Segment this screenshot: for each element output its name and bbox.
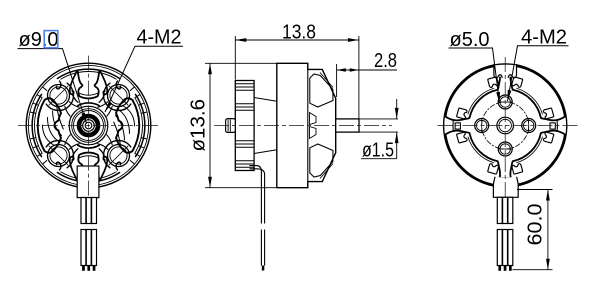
dimension Ø1.5 xyxy=(359,99,398,159)
bell chamfer inner line top xyxy=(320,73,333,88)
wire holder front xyxy=(77,166,99,198)
back view tab NW xyxy=(437,57,509,129)
back view tab SE xyxy=(501,122,573,194)
front view east rim xyxy=(135,94,145,156)
back view outer circle xyxy=(444,64,567,187)
back view tab NE xyxy=(501,57,573,129)
dimension 4-M2 left leader xyxy=(105,46,183,112)
mount hole BR xyxy=(108,145,130,167)
front view center line horizontal xyxy=(18,125,160,127)
island arc around hole TR xyxy=(104,83,131,110)
back wire tips xyxy=(498,266,511,271)
back hole N xyxy=(498,95,512,109)
mount hole TR xyxy=(108,85,130,107)
back view tab SW xyxy=(437,122,509,194)
bell top window xyxy=(310,74,333,107)
shoulder slant top xyxy=(254,98,277,102)
back hole S xyxy=(498,142,512,156)
spokes BL xyxy=(65,135,79,149)
blue highlight box on 0 xyxy=(44,31,58,48)
dimension Ø9.0 leader xyxy=(18,49,87,124)
svg-text:4-M2: 4-M2 xyxy=(137,27,182,49)
back view center line horizontal xyxy=(438,125,579,127)
dimension 60.0 xyxy=(513,190,553,270)
dimension 13.8 xyxy=(235,36,359,119)
dimension 4-M2 right leader xyxy=(508,46,569,101)
svg-text:ø13.6: ø13.6 xyxy=(188,99,210,152)
spokes BR xyxy=(98,135,112,149)
stator strip xyxy=(235,81,254,171)
hole tick marks xyxy=(482,102,529,149)
back view inner circle xyxy=(453,73,557,177)
side wire tip xyxy=(262,266,265,271)
strip lamination lines xyxy=(235,84,254,167)
mount hole TL xyxy=(48,85,70,107)
back hole E xyxy=(522,119,536,133)
back center hole xyxy=(497,117,514,134)
shoulder slant bottom xyxy=(254,150,277,154)
rear shaft nub xyxy=(226,119,236,133)
hub circles xyxy=(69,106,108,145)
island arc around hole BL xyxy=(46,141,73,168)
dimension 2.8 xyxy=(337,64,397,97)
front view east fan window xyxy=(114,87,147,164)
bell body outline xyxy=(277,63,336,187)
shaft xyxy=(336,119,359,132)
bell bottom window xyxy=(310,144,333,177)
north wire pocket xyxy=(494,65,516,77)
dimension Ø5.0 leader xyxy=(449,48,500,103)
island arc around hole BR xyxy=(104,141,131,168)
front view north rim xyxy=(57,69,119,79)
bell inner vertical xyxy=(307,63,309,187)
svg-text:2.8: 2.8 xyxy=(374,50,397,72)
east notch rect xyxy=(550,123,555,129)
bolt circle dashed xyxy=(482,102,529,149)
spokes TR xyxy=(98,102,112,116)
bell middle strut xyxy=(310,113,317,139)
svg-text:4-M2: 4-M2 xyxy=(521,27,567,49)
front view outer circle xyxy=(26,63,151,188)
side view wire curve xyxy=(250,166,265,266)
svg-text:60.0: 60.0 xyxy=(525,204,547,246)
back wire holder xyxy=(493,177,518,197)
back view center line vertical xyxy=(504,57,506,197)
side view center line xyxy=(214,125,392,127)
front view south tab xyxy=(56,145,120,179)
front wire tips xyxy=(82,266,95,271)
front view west fan window xyxy=(30,87,63,164)
back hole W xyxy=(475,119,489,133)
front view center line vertical xyxy=(88,56,90,197)
west notch rect xyxy=(455,123,460,129)
back wires xyxy=(497,197,513,265)
front view south rim xyxy=(57,172,119,182)
mount hole BL xyxy=(48,145,70,167)
svg-text:13.8: 13.8 xyxy=(282,22,316,44)
svg-text:ø1.5: ø1.5 xyxy=(362,140,394,162)
dimension Ø13.6 xyxy=(205,63,277,187)
front wires xyxy=(81,198,97,266)
spokes TL xyxy=(65,102,79,116)
island arc around hole TL xyxy=(46,83,73,110)
bell chamfer inner line bottom xyxy=(320,164,333,179)
front view west rim xyxy=(32,94,42,156)
svg-text:ø5.0: ø5.0 xyxy=(450,29,490,51)
front view second outer circle xyxy=(28,65,148,185)
front view north tab xyxy=(56,71,120,105)
